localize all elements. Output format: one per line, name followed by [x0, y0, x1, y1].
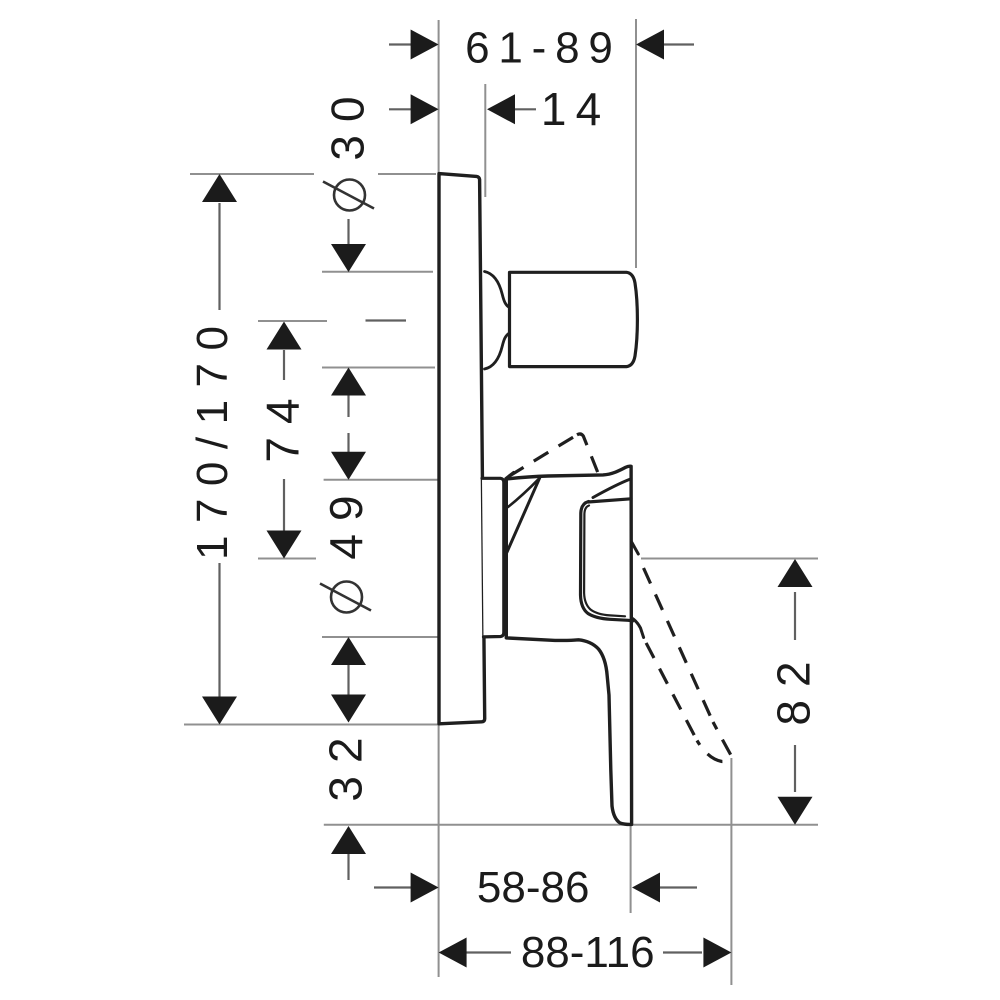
handle cone diagonal line [506, 477, 540, 554]
dimension Ø49 (escutcheon diameter) [320, 433, 372, 695]
svg-text:3 0: 3 0 [322, 96, 374, 160]
dimension 32 (plate bottom to lever end) [320, 695, 372, 881]
svg-text:7 4: 7 4 [257, 398, 309, 462]
extension line: knob top (y=271.8) [322, 271, 433, 273]
extension line: knob face (x=636, for dim 61-89) [635, 19, 637, 268]
lever open position (dashed) [639, 558, 731, 762]
extension line: knob bottom (y=367.5) [322, 367, 435, 369]
dimension 14 (plate depth) [389, 83, 601, 135]
hub notch spur (open-lever pivot, upper) [632, 543, 638, 555]
wall plate (side view) [439, 174, 485, 724]
extension line: handle axis right (y=558.5, for dim 82) [641, 558, 818, 560]
dimension 88-116 (wall to open lever tip) [439, 928, 732, 977]
hub flare (open-lever pivot, lower) [633, 619, 644, 638]
knob neck (spool between plate and knob) [485, 272, 510, 370]
svg-text:1 4: 1 4 [541, 83, 601, 135]
extension line: open lever tip (x=731.4, for dim 88-116) [730, 758, 732, 985]
extension line: wall / plate back plane (x=438.6) [438, 20, 440, 977]
extension line: plate top (y=174) [190, 173, 436, 175]
extension line: plate front depth (x=485.3, for dim 14) [484, 84, 486, 197]
extension line: escutcheon bottom (y=637) [322, 636, 484, 638]
svg-text:8 2: 8 2 [768, 661, 820, 725]
svg-text:88-116: 88-116 [521, 928, 655, 977]
svg-text:4 9: 4 9 [320, 495, 372, 559]
dimension Ø30 (knob diameter) [322, 96, 374, 417]
extension line: handle axis left (y=558.5) [258, 558, 316, 560]
dimension 58-86 (wall to lever tip) [374, 863, 697, 912]
selector knob (cylinder) [510, 272, 638, 366]
handle cone arc [508, 478, 540, 507]
svg-text:1 7 0 / 1 7 0: 1 7 0 / 1 7 0 [188, 326, 237, 560]
grip recess (rounded pocket) [581, 499, 633, 621]
centerline mark: knob axis dash [366, 319, 407, 321]
dimension 82 (handle axis to lever end) [768, 559, 820, 825]
handle shoulder curve [593, 479, 631, 498]
escutcheon (side view disc) [482, 478, 504, 637]
extension line: plate bottom (y=724.5) [184, 724, 439, 726]
svg-text:3 2: 3 2 [320, 737, 372, 801]
dimension 170/170 (plate height) [188, 174, 237, 725]
extension line: knob axis (y=321) [258, 320, 327, 322]
lever handle body (closed, pointing down) [506, 466, 631, 824]
svg-text:58-86: 58-86 [477, 863, 590, 912]
extension line: lever bottom (y=824.8) [324, 824, 818, 826]
extension line: escutcheon top (y=479.8) [324, 479, 481, 481]
lever-up base tick [506, 473, 514, 479]
lever raised position (dashed) [509, 434, 598, 476]
dimension 74 (knob axis to handle axis) [257, 322, 309, 559]
dimension 61-89 (top width) [389, 24, 694, 73]
extension line: lever tip (x=630.6, for dim 58-86) [630, 825, 632, 913]
svg-text:6 1 - 8 9: 6 1 - 8 9 [465, 24, 613, 73]
